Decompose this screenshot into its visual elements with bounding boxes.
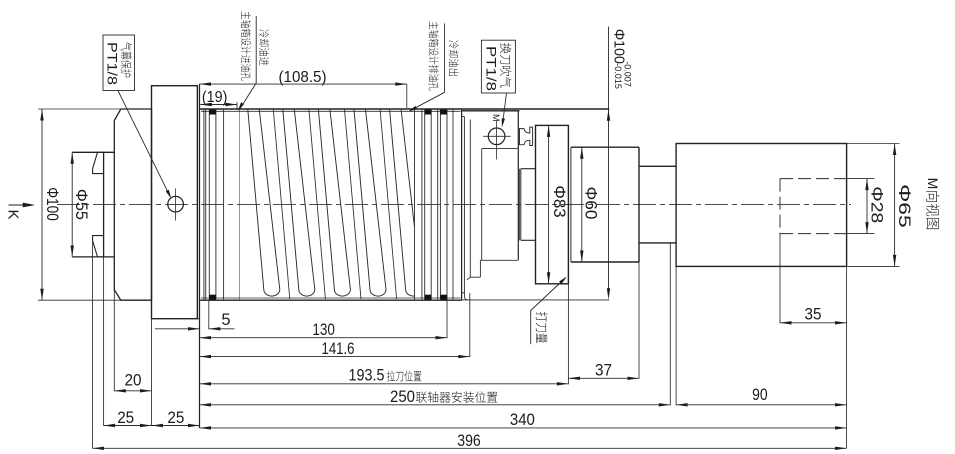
barrel top inner line: [201, 110, 461, 112]
svg-text:Φ100: Φ100: [43, 187, 61, 221]
svg-text:Φ65: Φ65: [895, 184, 913, 228]
svg-text:-0.015: -0.015: [613, 63, 623, 89]
label drawbar-knock: [536, 312, 548, 343]
svg-text:90: 90: [752, 386, 768, 404]
svg-text:20: 20: [125, 371, 142, 389]
phi83 ring outline: [536, 125, 569, 283]
right collar line 5: [437, 109, 439, 300]
front housing block: [152, 86, 198, 319]
rear housing top outer: [462, 110, 520, 112]
svg-text:Φ55: Φ55: [72, 189, 90, 220]
tool-air port crosshair v: [496, 121, 498, 160]
nose lug top: [93, 152, 104, 173]
housing inner vert 2: [469, 120, 471, 278]
drawbar shaft top edge: [521, 168, 536, 170]
ext line x568.4: [567, 284, 569, 385]
dimension 90: [676, 404, 847, 406]
ext line phi65 top: [847, 143, 900, 145]
ext line x469.8: [469, 293, 471, 357]
ext line phi100 bottom: [38, 299, 121, 301]
o-ring right top 1: [425, 110, 432, 115]
main centerline axis: [57, 204, 851, 206]
svg-text:(108.5): (108.5): [279, 69, 327, 86]
housing step top: [462, 116, 465, 118]
air fitting spool top: [520, 127, 533, 145]
leader tool-air to port: [503, 93, 507, 122]
barrel right face: [461, 109, 463, 300]
ext line x639: [638, 262, 640, 379]
svg-text:PT1/8: PT1/8: [484, 46, 500, 91]
svg-text:-0.007: -0.007: [623, 61, 633, 87]
tool-air port crosshair h: [483, 135, 510, 137]
drawbar shaft left face b: [520, 169, 522, 241]
barrel top silhouette + phi100 ext: [200, 108, 610, 110]
ext line phi100 top: [38, 108, 121, 110]
svg-text:25: 25: [167, 409, 184, 427]
dimension phi65: [894, 144, 896, 267]
right collar line 8: [452, 109, 454, 300]
svg-text:PT1/8: PT1/8: [104, 42, 119, 85]
label oil-out col2: [449, 40, 459, 75]
barrel left face: [199, 84, 201, 428]
dimension 141.6: [200, 356, 470, 358]
svg-text:396: 396: [457, 432, 481, 450]
leader oil-out: [444, 23, 446, 92]
ext line phi65 bottom: [847, 265, 900, 267]
spindle nose front face: [103, 152, 105, 257]
dimension 5: [155, 328, 200, 330]
dimension 396: [93, 447, 847, 449]
svg-text:35: 35: [805, 305, 822, 323]
dimension (19): [200, 104, 237, 106]
dimension phi55: [71, 152, 73, 257]
block bottom edge to barrel face: [197, 318, 199, 320]
air-curtain port circle: [168, 196, 184, 212]
block/barrel gap line: [196, 86, 198, 319]
ext line phi28 top: [847, 178, 875, 180]
label text qimubaohu: [121, 42, 132, 77]
ext line x103.5: [103, 257, 105, 426]
phi60 left face inner: [570, 147, 572, 262]
right collar line 7: [446, 109, 448, 300]
o-ring right bottom 2: [440, 295, 447, 300]
svg-text:Φ28: Φ28: [867, 186, 885, 223]
svg-text:M: M: [491, 114, 501, 122]
rear housing right edge top: [517, 111, 519, 260]
nose lug bottom: [93, 236, 104, 257]
phi60 top edge: [571, 146, 639, 148]
o-ring left top: [209, 110, 216, 115]
ext line x780: [779, 234, 781, 324]
ext line x151.5: [151, 319, 153, 426]
leader air-curtain to port: [118, 91, 170, 196]
dimension 250 (coupling pos): [200, 404, 671, 406]
housing step bottom: [462, 292, 465, 294]
flange outline: [114, 109, 151, 300]
leader oil-in: [255, 16, 257, 83]
ext line 19 right: [236, 102, 238, 110]
bearing pocket left: [481, 149, 483, 261]
air-curtain port vertical crosshair: [175, 189, 177, 221]
left groove wall 2: [215, 109, 217, 300]
phi28 bore bottom hidden: [780, 233, 847, 235]
label oil-out col1: [429, 22, 439, 91]
ext line x676.1: [675, 266, 677, 405]
dimension 37: [568, 377, 639, 379]
ext line x447: [446, 300, 448, 338]
right block outline: [676, 144, 847, 267]
svg-text:193.5: 193.5: [349, 367, 385, 385]
bearing pocket bottom line: [481, 259, 518, 261]
svg-text:Φ60: Φ60: [581, 187, 599, 220]
spindle nose bottom edge: [72, 256, 114, 258]
housing chamfer bottom: [467, 277, 470, 280]
spindle nose top edge: [72, 151, 114, 153]
ext line x208.8: [208, 300, 210, 329]
dimension phi28: [866, 179, 868, 234]
svg-text:K: K: [5, 209, 22, 219]
label oil-in col1: [241, 12, 251, 81]
barrel bottom silhouette: [200, 299, 462, 301]
right collar line 1: [414, 109, 416, 300]
dimension 340: [200, 427, 847, 429]
right collar line 3: [424, 109, 426, 300]
ext line 108.5 right: [406, 84, 408, 108]
label box air-curtain: [103, 35, 135, 91]
housing inner vert 1: [463, 117, 465, 297]
stub bottom edge: [639, 242, 676, 244]
right collar line 4: [430, 109, 432, 300]
dimension phi100: [41, 109, 43, 300]
svg-text:5: 5: [221, 311, 230, 329]
svg-text:250: 250: [390, 388, 415, 406]
housing inner step line: [470, 276, 480, 278]
o-ring left bottom: [209, 295, 216, 300]
left collar end: [223, 109, 225, 300]
tool-air port circle: [488, 128, 505, 145]
stub top edge: [639, 165, 676, 167]
svg-text:Φ83: Φ83: [550, 185, 568, 218]
left collar line b: [205, 109, 207, 300]
dimension 20: [114, 390, 151, 392]
phi60 right face: [638, 147, 640, 262]
svg-text:Φ100: Φ100: [611, 29, 627, 64]
drawbar shaft bottom edge: [521, 239, 536, 241]
phi60 bottom edge: [571, 261, 639, 263]
leader drawbar-knock: [531, 278, 566, 311]
left collar line a: [203, 109, 205, 300]
bearing pocket top line: [482, 148, 518, 150]
o-ring right bottom 1: [425, 295, 432, 300]
svg-text:M: M: [925, 178, 941, 190]
dimension 25 b: [152, 425, 200, 427]
phi28 bore left hidden: [779, 179, 781, 234]
right collar line 6: [439, 109, 441, 300]
svg-text:340: 340: [510, 411, 535, 429]
svg-text:(19): (19): [202, 89, 228, 106]
dim line phi100 tolerance: [608, 27, 610, 297]
o-ring right top 2: [440, 110, 447, 115]
ext line x92.5: [92, 242, 94, 449]
dimension (108.5): [200, 83, 407, 85]
ext line x114: [113, 290, 115, 392]
barrel bottom inner line: [201, 297, 461, 299]
ext line phi28 bottom: [847, 233, 875, 235]
ext line x670.3: [669, 244, 671, 406]
dimension 35: [780, 322, 847, 324]
barrel bottom ext line: [462, 299, 610, 301]
dimension 25 a: [104, 425, 152, 427]
text phi100 tolerance: [611, 29, 633, 89]
label text huandaochui: [500, 43, 511, 87]
dimension 193.5 (drawbar pos): [200, 383, 569, 385]
dimension 130: [200, 337, 448, 339]
svg-text:37: 37: [595, 362, 612, 380]
left groove wall 1: [208, 109, 210, 300]
dimension phi60: [581, 147, 583, 262]
svg-text:130: 130: [312, 321, 335, 339]
view arrow K: [9, 204, 27, 206]
label box tool-air: [481, 40, 515, 93]
label oil-in col2: [259, 29, 269, 65]
drawbar shaft left face a: [518, 169, 520, 241]
phi28 bore top hidden: [780, 178, 847, 180]
cooling spiral groove: [239, 109, 422, 300]
svg-text:141.6: 141.6: [322, 340, 355, 358]
svg-text:25: 25: [117, 409, 134, 427]
right collar line 2: [421, 109, 423, 300]
ext line x846.6: [846, 266, 848, 448]
dimension phi83: [548, 125, 550, 283]
